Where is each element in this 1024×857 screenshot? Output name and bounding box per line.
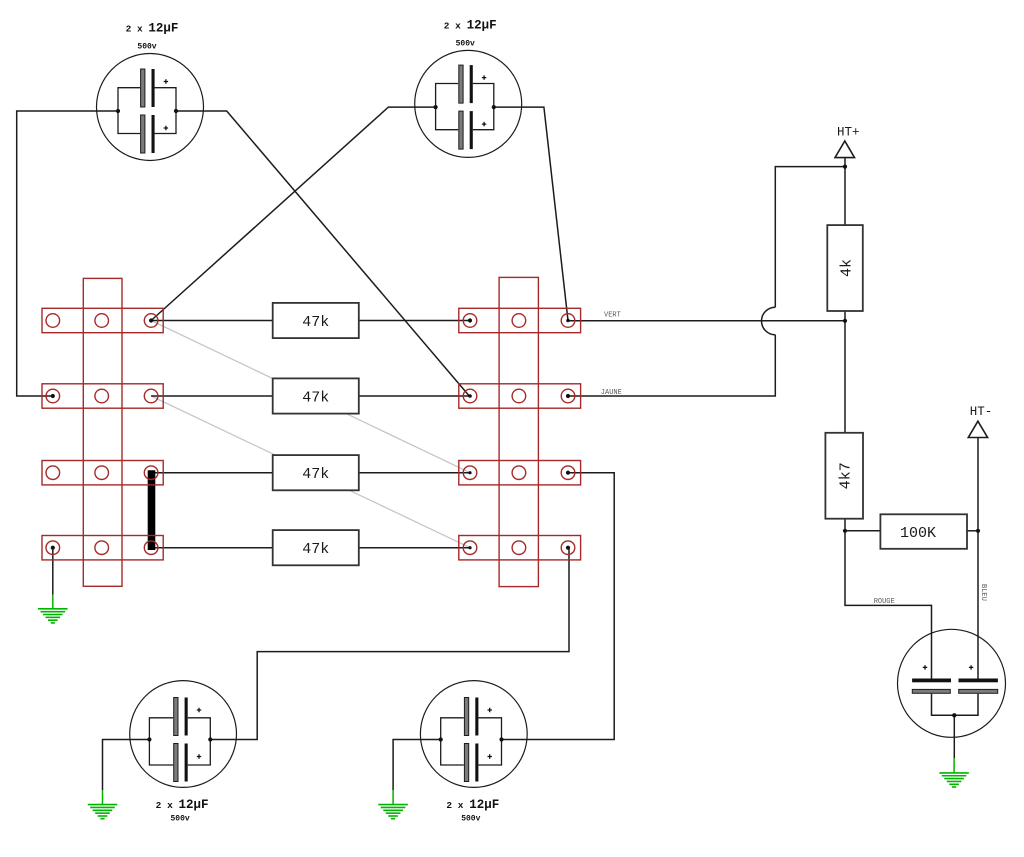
svg-text:500v: 500v (170, 814, 189, 823)
wire (C4 right terminal up to right strip row3 right hole) (502, 473, 615, 740)
resistor R3 47k (273, 455, 359, 490)
svg-text:ROUGE: ROUGE (874, 598, 895, 606)
svg-text:2 x 12µF: 2 x 12µF (446, 798, 499, 812)
wire (C1 right terminal diagonal to right strip row2 left hole) (176, 111, 469, 396)
svg-text:JAUNE: JAUNE (601, 389, 622, 397)
svg-text:2 x 12µF: 2 x 12µF (444, 18, 497, 32)
jumper bar (left strip row3 to row4 right column) (148, 470, 156, 550)
wire (C5 junction down to ground) (953, 715, 955, 758)
node (right strip row4 right hole) (566, 546, 570, 550)
wire (C3 right terminal up to right strip row4 right hole) (210, 548, 569, 740)
capacitor C5 (dual can, bottom right) (898, 629, 1006, 737)
resistor R2 47k (273, 378, 359, 413)
wire (net ROUGE: 4k7 bottom node down to C5 left positive plate) (845, 531, 932, 679)
wire (100K right to HT- rail) (967, 530, 978, 532)
wire (net VERT: right strip row1 to 4k bottom node) (568, 320, 845, 322)
node (4k7 bottom / 100K left junction) (843, 529, 847, 533)
ground (below C5) (939, 773, 969, 787)
node (left strip row4 left hole) (51, 546, 55, 550)
wire (row3: resistor R3 to right strip) (359, 472, 470, 474)
capacitor C1 (2 x 12µF 500v, top left can) (97, 22, 204, 161)
svg-text:VERT: VERT (604, 312, 621, 320)
ground (below C3) (88, 805, 118, 819)
wire (left strip row4 left hole down to ground) (52, 548, 54, 595)
wire (row2: left strip to resistor R2) (151, 395, 273, 397)
svg-text:500v: 500v (456, 39, 475, 48)
wire (HT+ rail vertical through 4k and 4k7) (844, 158, 846, 531)
wire (C5 negative plates to ground junction) (932, 694, 979, 716)
resistor R6 4k7 (825, 433, 863, 519)
capacitor C2 (2 x 12µF 500v, top middle can) (415, 18, 522, 157)
node (right strip row2 right hole) (566, 394, 570, 398)
wire (row4: left strip to resistor R4) (151, 547, 273, 549)
svg-text:500v: 500v (461, 814, 480, 823)
node (right strip row4 left hole) (468, 546, 471, 549)
terminal strip TS1 (left tag board) (42, 278, 163, 586)
wire (C3 left terminal to ground) (103, 740, 150, 791)
svg-text:4k: 4k (838, 259, 855, 277)
wire (net BLEU: HT- down to C5 right positive plate) (977, 438, 979, 679)
wire (row2: resistor R2 to right strip) (359, 395, 470, 397)
power symbol HT- (968, 405, 992, 438)
wire (net JAUNE: right strip row2 up to HT+ node, with hop over VERT) (568, 335, 775, 396)
resistor R1 47k (273, 303, 359, 338)
resistor R5 4k (827, 225, 863, 311)
svg-text:100K: 100K (900, 525, 936, 542)
svg-text:HT-: HT- (970, 405, 993, 419)
svg-text:BLEU: BLEU (979, 584, 987, 601)
wire (row4: resistor R4 to right strip) (359, 547, 470, 549)
ground (left strip row4) (38, 609, 68, 623)
node (right strip row3 left hole) (468, 471, 471, 474)
svg-text:47k: 47k (302, 466, 329, 483)
wire (gray jumper: left strip row1 right hole to right strip row3 left hole) (151, 321, 470, 473)
wire (row1: resistor R1 to right strip) (359, 320, 470, 322)
node (left strip row2 left hole) (51, 394, 55, 398)
resistor R7 100K (880, 514, 967, 549)
svg-text:500v: 500v (137, 43, 156, 52)
node (right strip row1 right hole) (566, 319, 570, 323)
svg-text:HT+: HT+ (837, 126, 860, 140)
wire (C2 left terminal diagonal to left strip row1 right hole) (151, 107, 436, 320)
wire (C1 left terminal to left strip row2 left hole) (17, 111, 118, 396)
wire (gray jumper: left strip row2 right hole to right strip row4 left hole) (151, 396, 470, 548)
resistor R4 47k (273, 530, 359, 565)
wire (row3: left strip to resistor R3) (151, 472, 273, 474)
node (4k bottom / VERT junction) (843, 319, 847, 323)
wire (node to 100K left) (845, 530, 880, 532)
wire (C2 right terminal to right strip row1 right hole) (494, 107, 568, 320)
capacitor C3 (2 x 12µF 500v, bottom left can) (130, 681, 237, 824)
ground (below C4) (378, 805, 408, 819)
svg-text:47k: 47k (302, 541, 329, 558)
wire (row1: left strip to resistor R1) (151, 320, 273, 322)
node (right strip row3 right hole) (566, 471, 570, 475)
node (left strip row1 right hole) (149, 318, 153, 322)
capacitor C4 (2 x 12µF 500v, bottom middle can) (420, 681, 527, 824)
svg-text:4k7: 4k7 (838, 462, 855, 489)
svg-text:2 x 12µF: 2 x 12µF (126, 22, 179, 36)
wire (C4 left terminal to ground) (393, 740, 441, 791)
svg-text:47k: 47k (302, 389, 329, 406)
power symbol HT+ (835, 126, 859, 158)
terminal strip TS2 (right tag board) (459, 277, 581, 586)
node (HT+ junction) (843, 165, 847, 169)
svg-text:2 x 12µF: 2 x 12µF (156, 798, 209, 812)
node (right strip row1 left hole) (468, 318, 472, 322)
svg-text:47k: 47k (302, 314, 329, 331)
node (100K right / HT- rail junction) (976, 529, 980, 533)
node (right strip row2 left hole) (468, 394, 472, 398)
